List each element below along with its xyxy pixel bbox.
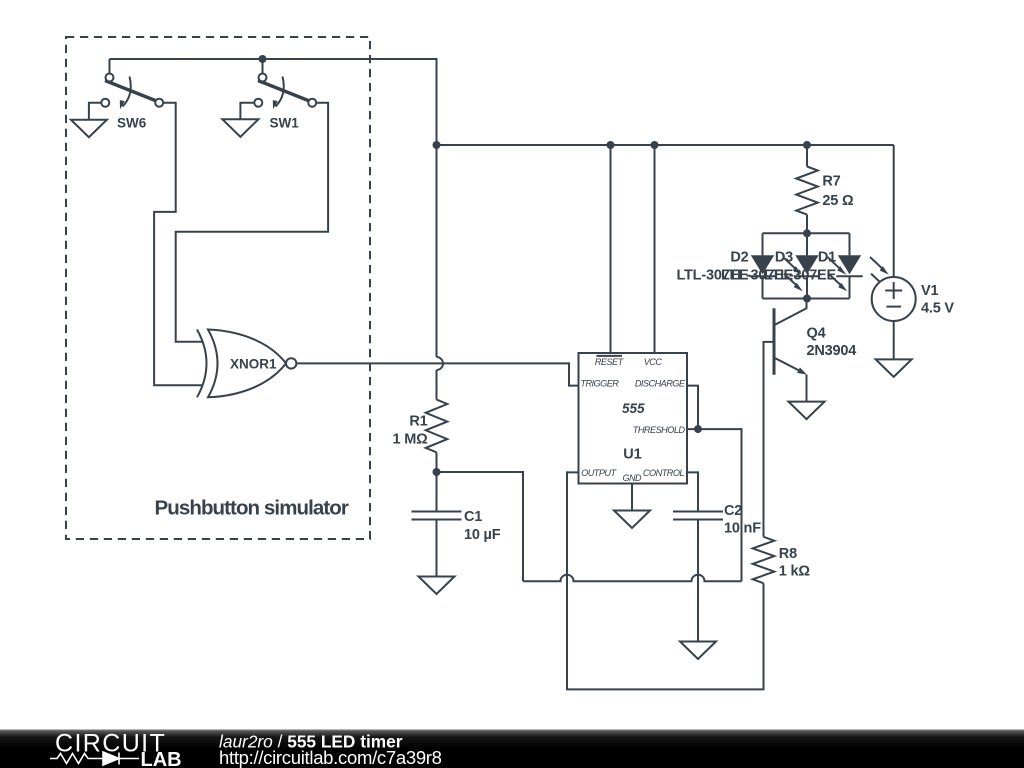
- svg-text:R7: R7: [822, 174, 840, 190]
- LED D2: [749, 233, 803, 298]
- node junction rail x437: [433, 141, 441, 149]
- svg-text:C1: C1: [464, 509, 482, 525]
- ground Q4: [789, 402, 825, 420]
- ground C2: [680, 642, 716, 660]
- resistor R8: [753, 537, 775, 583]
- LED D3: [794, 233, 848, 298]
- svg-text:25 Ω: 25 Ω: [822, 193, 854, 209]
- pin VCC wire: [654, 145, 656, 353]
- svg-text:SW1: SW1: [270, 116, 300, 131]
- svg-text:D2: D2: [730, 250, 748, 266]
- svg-text:R8: R8: [779, 546, 797, 562]
- svg-text:R1: R1: [409, 414, 427, 430]
- node junction THRESHOLD: [694, 425, 702, 433]
- wire junction to threshold net: [437, 472, 524, 581]
- svg-text:LTL-307EE: LTL-307EE: [764, 268, 837, 284]
- wire R1 branch vertical with hop: [436, 145, 438, 357]
- wire top net SW6-SW1 to rail: [110, 59, 437, 145]
- svg-text:RESET: RESET: [595, 357, 625, 367]
- svg-text:DISCHARGE: DISCHARGE: [635, 379, 686, 389]
- wire LED top rail: [763, 232, 850, 234]
- wire threshold rail with hops: [523, 575, 742, 582]
- svg-text:10 µF: 10 µF: [464, 527, 501, 543]
- LED D1: [836, 233, 890, 298]
- ground C1: [419, 577, 455, 595]
- op-amp IC U1 555 box: [579, 353, 688, 484]
- svg-text:OUTPUT: OUTPUT: [581, 468, 617, 478]
- wire GND pin: [631, 484, 633, 511]
- wire SW1 pole to XNOR input A: [176, 103, 328, 342]
- node junction rail VCC: [651, 141, 659, 149]
- logo doodle resistor diode: [50, 752, 139, 765]
- op-amp gate XNOR1: [197, 330, 296, 398]
- svg-text:Pushbutton simulator: Pushbutton simulator: [155, 497, 349, 520]
- svg-text:C2: C2: [724, 503, 742, 519]
- wire CONTROL to C2: [687, 472, 698, 511]
- node junction R1 C1: [433, 468, 441, 476]
- svg-text:2N3904: 2N3904: [807, 343, 857, 359]
- wire rail to V1: [893, 145, 895, 277]
- ground V1: [876, 359, 912, 377]
- svg-text:U1: U1: [623, 447, 641, 463]
- wire THRESHOLD net right: [687, 429, 742, 581]
- capacitor C2: [673, 512, 723, 642]
- wire LED bottom rail: [763, 298, 850, 300]
- svg-text:http://circuitlab.com/c7a39r8: http://circuitlab.com/c7a39r8: [219, 747, 442, 768]
- transistor Q4: [774, 299, 807, 402]
- resistor R7: [806, 145, 808, 167]
- ground SW6: [71, 120, 107, 138]
- svg-text:1 MΩ: 1 MΩ: [393, 432, 429, 448]
- svg-text:D3: D3: [775, 250, 793, 266]
- wire SW6 pole down-jog to XNOR input B: [154, 103, 203, 386]
- switch SW1: [254, 59, 316, 109]
- node junction rail RESET: [607, 141, 615, 149]
- svg-text:LAB: LAB: [141, 749, 182, 768]
- dashed subcircuit box Pushbutton simulator: [66, 37, 370, 539]
- footer bar: [0, 729, 1024, 768]
- ground U1: [614, 511, 650, 529]
- wire V1 to ground: [893, 321, 895, 359]
- svg-text:SW6: SW6: [117, 116, 147, 131]
- svg-text:4.5 V: 4.5 V: [921, 301, 954, 317]
- wire SW1 throw to ground: [240, 103, 254, 120]
- node junction LED bottom: [803, 295, 811, 303]
- svg-text:GND: GND: [623, 473, 643, 483]
- svg-text:CONTROL: CONTROL: [643, 468, 685, 478]
- pin RESET wire: [610, 145, 612, 353]
- voltage source V1: [872, 277, 916, 321]
- resistor R1: [426, 400, 448, 453]
- capacitor C1: [412, 472, 462, 577]
- node junction rail R7: [803, 141, 811, 149]
- svg-text:Q4: Q4: [807, 326, 826, 342]
- wire SW6 throw to ground: [89, 103, 101, 120]
- ground SW1: [222, 119, 258, 137]
- svg-text:THRESHOLD: THRESHOLD: [633, 425, 686, 435]
- node junction LED top: [803, 229, 811, 237]
- svg-text:V1: V1: [921, 283, 938, 299]
- svg-text:TRIGGER: TRIGGER: [580, 379, 619, 389]
- wire OUTPUT to R8 bottom: [567, 472, 764, 689]
- svg-text:10 nF: 10 nF: [724, 521, 761, 537]
- switch SW6: [101, 59, 163, 109]
- svg-text:D1: D1: [818, 250, 836, 266]
- svg-text:555: 555: [622, 401, 645, 416]
- wire DISCHARGE to THRESHOLD: [687, 386, 698, 430]
- node junction SW1 top: [259, 55, 267, 63]
- wire XNOR output to TRIGGER: [296, 363, 578, 385]
- svg-text:VCC: VCC: [644, 357, 663, 367]
- wire R8 top to Q4 base: [764, 342, 773, 537]
- svg-text:XNOR1: XNOR1: [230, 357, 277, 372]
- svg-text:1 kΩ: 1 kΩ: [779, 564, 811, 580]
- wire VCC rail: [437, 144, 894, 146]
